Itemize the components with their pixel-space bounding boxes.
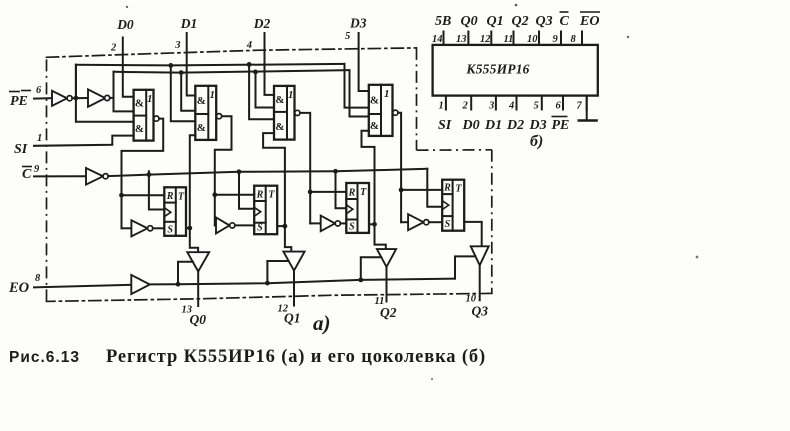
tri-state buffer DD7.4 (output Q3) [471,246,489,265]
wire: S input line cell 1 [235,224,254,226]
node: package top label Q0 [461,14,478,29]
wire: Q1 to output buffer input [285,226,291,252]
svg-text:&: & [135,123,144,135]
wire: Q1 serial feedback to cell 2 gate [263,133,285,226]
flip-flop DD6.2 (RST latch, cell 1) [254,186,277,235]
wire: C input line [34,175,86,177]
wire: R input line cell 2 [310,191,346,193]
svg-text:К555ИР16: К555ИР16 [465,62,529,77]
svg-text:R: R [348,188,356,199]
svg-text:1: 1 [288,89,294,101]
svg-text:T: T [268,190,275,201]
wire: S input line cell 3 [429,221,442,223]
svg-text:2: 2 [462,101,469,112]
wire: scan noise specks [126,4,699,380]
wire: to S inverter cell 0 [122,227,132,229]
wire: SI input line [34,136,134,146]
svg-text:Q1: Q1 [487,14,504,29]
node: output pin 12 Q1 [278,304,301,326]
svg-text:EO: EO [579,14,599,29]
svg-text:11: 11 [504,34,514,45]
wire: R input line cell 3 [401,189,442,191]
node: package bottom pin 7 [577,96,587,112]
wire: Q0 serial feedback to cell 1 gate [190,135,196,228]
inverter DD1.1 (PE) [52,91,72,106]
svg-text:Q3: Q3 [536,14,553,29]
wire: dash-dot IC boundary left edge [46,57,48,301]
node: package top pin 12 [480,32,491,46]
svg-text:PE: PE [10,94,28,109]
node EO input pin 8 [8,273,41,296]
wire: Q0 output to pin [197,271,199,306]
wire: dash-dot IC boundary notch edge [417,149,492,151]
AND-OR gate DD4.2 (load mux, cell 1) [195,86,221,140]
svg-text:R: R [166,191,174,202]
node: package top pin 11 [504,32,514,46]
node: package bottom pin 1 [439,96,446,112]
wire: Q3 output to pin [479,265,481,300]
wire: clock drop to cell 3 C input [427,169,442,207]
node PE input pin 6 [9,85,42,109]
svg-text:R: R [256,190,264,201]
svg-text:5: 5 [534,101,539,112]
svg-text:D3: D3 [529,118,547,133]
node SI input pin 1 [14,133,42,157]
node: package bottom label D2 [506,118,524,133]
node: Q0 junction [187,226,192,231]
wire: dash-dot IC boundary bottom edge [47,293,492,301]
wire: rail2 tap to cell 2 upper gate [253,70,274,108]
node: R-branch junction cell 1 [212,192,217,197]
node: EO enable junction Q0 [176,282,181,287]
wire: rail2 tap to cell 0 upper gate [114,72,134,112]
wire: gate DD4.1 output to flip-flop R/S steering [122,119,164,229]
svg-text:T: T [178,191,185,202]
svg-text:1: 1 [147,93,153,105]
wire: to S inverter cell 2 [310,222,321,224]
wire: D2 input line [265,33,275,95]
svg-text:&: & [275,94,284,106]
svg-text:13: 13 [456,34,467,45]
wire: rail1 tap to cell 3 lower gate [345,64,369,108]
node: package bottom label SI [438,118,452,133]
wire: flip-flop Q output cell 3 to buffer [464,222,482,246]
svg-text:5: 5 [345,31,350,42]
AND-OR gate DD4.3 (load mux, cell 2) [274,86,300,140]
wire: Q2 serial feedback to cell 3 gate [362,131,375,225]
wire: gate DD4.4 output to flip-flop R/S steering [398,113,401,223]
svg-text:R: R [443,183,451,194]
wire: rail 2 (PE distribution rail) [114,70,350,98]
inverter DD5.2 (S input, cell 1) [216,217,235,233]
svg-text:3: 3 [488,101,494,112]
svg-text:Q2: Q2 [380,305,397,320]
svg-text:14: 14 [432,34,443,45]
node: package top label Q2 [512,14,529,29]
AND-OR gate DD4.1 (load mux, cell 0) [134,90,159,141]
node: package bottom label D3 [529,118,547,133]
wire: gate DD4.3 output to flip-flop R/S steering [300,113,310,223]
node: sub-figure label b [530,133,543,150]
wire: EO enable step to buffer Q3 [455,256,476,278]
node: package top pin 13 [456,32,468,46]
IC package K555IR16 pinout body [433,45,598,96]
inverter DD1.2 (PE buffer) [88,89,110,106]
node C input pin 9 [22,164,40,182]
svg-text:D1: D1 [180,16,198,31]
wire: clock drop to cell 2 C input [333,169,346,208]
wire: flip-flop Q output cell 0 [186,227,190,229]
svg-text:6: 6 [36,85,42,96]
svg-text:9: 9 [553,34,559,45]
svg-text:S: S [257,223,263,234]
svg-text:T: T [455,184,462,195]
tri-state buffer DD7.1 (output Q0) [187,252,209,271]
node: EO enable junction Q1 [265,281,270,286]
svg-text:&: & [370,94,379,106]
svg-text:D2: D2 [506,118,524,133]
wire: dash-dot IC boundary top edge [47,48,417,57]
node: R-branch junction cell 0 [119,193,124,198]
node: package top label Q1 [487,14,504,29]
svg-text:4: 4 [508,101,514,112]
svg-text:Q3: Q3 [472,304,489,319]
svg-text:SI: SI [438,118,452,133]
wire: rail1 tap to cell 1 lower gate [168,63,195,121]
svg-text:D0: D0 [116,17,134,32]
svg-text:6: 6 [556,101,562,112]
node: output pin 11 Q2 [375,296,397,320]
node: package bottom pin 5 [534,96,542,112]
wire: PE input line [34,97,52,99]
svg-text:1: 1 [37,133,42,144]
node: Q2 junction [372,222,377,227]
node: package bottom pin 2 [462,96,472,112]
node: R-branch junction cell 2 [308,190,313,195]
node: Q1 junction [283,224,288,229]
node: package bottom pin 3 [488,96,496,112]
svg-text:12: 12 [480,34,491,45]
svg-text:Q0: Q0 [190,312,207,327]
svg-text:8: 8 [571,34,577,45]
svg-text:S: S [445,219,451,230]
wire: flip-flop Q output cell 1 [277,225,285,227]
node D3 input pin 5 [345,16,367,43]
svg-text:Рис.6.13: Рис.6.13 [9,349,80,366]
svg-text:10: 10 [527,34,538,45]
svg-text:1: 1 [209,89,215,101]
flip-flop DD6.4 (RST latch, cell 3) [442,180,464,231]
node: output pin 13 Q0 [182,305,207,327]
wire: EO enable step to buffer Q0 [178,262,193,284]
wire: EO enable rail [150,279,455,285]
svg-text:1: 1 [384,88,390,100]
buffer DD3 (EO) [131,275,150,294]
inverter DD2 (clock) [86,168,108,185]
ground: pin 7 common bar [579,96,597,121]
svg-text:D0: D0 [462,118,480,133]
node: package bottom label D1 [484,118,502,133]
svg-text:C: C [22,167,32,182]
svg-text:D2: D2 [253,16,271,31]
wire: R input line cell 1 [215,194,254,196]
node: output pin 10 Q3 [466,294,489,319]
svg-text:S: S [349,221,355,232]
node: package bottom pin 4 [508,96,517,112]
node: package top pin 8 [571,32,583,46]
svg-text:&: & [370,120,379,132]
svg-text:SI: SI [14,142,28,157]
svg-text:C: C [560,14,570,29]
node D1 input pin 3 [174,16,197,51]
inverter DD5.1 (S input, cell 0) [131,220,152,236]
wire: EO enable step to buffer Q2 [361,257,382,280]
svg-text:Q0: Q0 [461,14,478,29]
inverter DD5.4 (S input, cell 3) [408,214,429,230]
svg-text:PE: PE [552,118,570,133]
tri-state buffer DD7.2 (output Q1) [283,252,304,271]
svg-text:1: 1 [439,101,444,112]
wire: to S inverter cell 3 [401,221,408,223]
node D0 input pin 2 [110,17,134,53]
svg-text:Регистр К555ИР16 (а) и его цок: Регистр К555ИР16 (а) и его цоколевка (б) [106,347,486,367]
node: package top pin 9 [553,32,562,46]
svg-text:8: 8 [35,273,41,284]
svg-text:S: S [167,224,173,235]
node: package top label EO [579,12,600,29]
tri-state buffer DD7.3 (output Q2) [377,249,396,267]
flip-flop DD6.1 (RST latch, cell 0) [164,187,186,236]
svg-text:&: & [275,121,284,133]
node: package top pin 10 [527,32,539,46]
wire: D0 input line [123,38,134,97]
wire: clock rail C-bar [108,169,427,176]
node D2 input pin 4 [246,16,271,51]
wire: rail2 tap to cell 3 upper gate [350,70,369,116]
flip-flop DD6.3 (RST latch, cell 2) [346,183,369,233]
wire: gate DD4.2 output to flip-flop R/S steering [215,116,232,225]
svg-text:&: & [197,95,206,107]
node: package bottom label PE [552,117,570,134]
wire: dash-dot IC boundary right lower edge [491,150,493,294]
wire: rail 1 (PE-bar distribution rail) [76,64,345,98]
svg-text:&: & [135,98,144,110]
wire: clock drop to cell 0 C input [147,171,165,209]
wire: rail1 tap to cell 2 lower gate [247,62,274,119]
svg-text:5В: 5В [435,14,451,29]
svg-text:Q1: Q1 [284,311,301,326]
wire: to S inverter cell 1 [215,224,216,226]
svg-text:Q2: Q2 [512,14,529,29]
inverter DD5.3 (S input, cell 2) [321,216,341,232]
wire: dash-dot IC boundary right upper edge [416,48,418,150]
svg-text:T: T [360,187,367,198]
svg-text:б): б) [530,133,543,150]
svg-text:EO: EO [8,280,30,296]
node: package bottom pin 6 [556,96,564,112]
wire: flip-flop Q output cell 2 [369,223,375,225]
wire: Q2 output to pin [386,267,388,302]
svg-text:&: & [197,122,206,134]
wire: Q1 output to pin [293,271,295,306]
wire: R input line cell 0 [122,194,165,196]
wire: EO input line [34,285,131,288]
svg-text:2: 2 [110,43,117,54]
node: R-branch junction cell 3 [399,188,404,193]
svg-text:4: 4 [246,40,252,51]
node: package top label C [560,12,570,29]
node: EO enable junction Q2 [358,278,363,283]
wire: clock drop to cell 1 C input [237,169,255,208]
wire: PE inverted to node A [72,97,87,99]
svg-text:9: 9 [34,164,40,175]
svg-text:3: 3 [174,40,180,51]
node: package top label 5В [435,14,451,29]
wire: rail2 tap to cell 1 upper gate [179,70,196,111]
wire: rail1 tap to cell 0 lower gate [76,65,134,122]
node: package bottom label D0 [462,118,480,133]
wire: inverter DD1.2 output to node B riser [110,97,114,99]
svg-text:D3: D3 [349,16,367,31]
wire: S input line cell 2 [340,222,346,224]
wire: D1 input line [187,33,196,96]
node A junction (PE-bar) [74,96,79,101]
node: package top label Q3 [536,14,553,29]
node: package top pin 14 [432,32,444,46]
node: sub-figure label a [313,311,331,335]
AND-OR gate DD4.4 (load mux, cell 3) [369,85,398,136]
svg-text:D1: D1 [484,118,502,133]
wire: Q2 to output buffer input [375,224,386,249]
wire: S input line cell 0 [153,227,165,229]
node: figure caption [9,347,486,367]
svg-text:а): а) [313,311,331,335]
wire: Q0 to output buffer input [190,228,198,252]
svg-text:7: 7 [577,101,583,112]
wire: D3 input line [359,33,369,91]
wire: EO enable step to buffer Q1 [267,261,288,283]
